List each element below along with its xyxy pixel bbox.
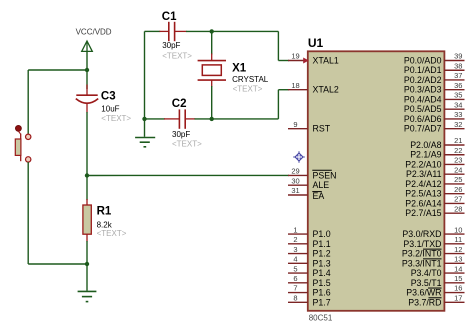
pin 30 ALE [288,176,329,190]
pin 10 P3.0/RXD [402,225,464,239]
pin 17 P3.7/RD [408,293,464,307]
svg-text:30: 30 [291,176,299,185]
wire C3 to RST node [86,112,88,176]
value 30pF C1 [162,41,180,50]
svg-text:24: 24 [454,165,462,174]
svg-text:4: 4 [293,255,297,264]
wire node to C3 [86,70,88,89]
power symbol VCC/VDD [76,28,112,52]
svg-text:P1.4: P1.4 [313,268,331,278]
svg-text:P1.5: P1.5 [313,278,331,288]
svg-text:23: 23 [454,156,462,165]
pin 21 P2.0/A8 [410,136,464,150]
svg-text:<TEXT>: <TEXT> [233,85,263,94]
value CRYSTAL [232,75,269,84]
capacitor C2 [164,109,195,128]
op chip U1 body [308,51,445,311]
pin 11 P3.1/TXD [403,235,464,249]
pin 18 XTAL2 [288,81,339,95]
svg-text:34: 34 [454,100,462,109]
svg-text:39: 39 [454,52,462,61]
svg-text:<TEXT>: <TEXT> [101,114,131,123]
pin 3 P1.2 [288,245,331,259]
svg-text:ALE: ALE [313,180,330,190]
label C1 [162,11,177,23]
svg-text:1: 1 [293,225,297,234]
svg-text:P1.3: P1.3 [313,258,331,268]
junction R1 bottom node [85,262,89,266]
svg-text:CRYSTAL: CRYSTAL [232,75,269,84]
wire C2 to XTAL2 [195,90,290,119]
wire RST node to R1 [86,176,88,201]
svg-text:9: 9 [293,120,297,129]
wire C2 left [145,118,166,120]
wire R1 to ground [86,241,88,291]
svg-text:28: 28 [454,204,462,213]
pin 36 P0.3/AD3 [404,81,465,95]
svg-text:38: 38 [454,61,462,70]
pin 28 P2.7/A15 [405,204,464,218]
pin 31 EA [288,186,324,201]
label U1 [308,36,324,50]
pin 25 P2.4/A12 [405,175,464,189]
svg-text:15: 15 [454,274,462,283]
pin 2 P1.1 [288,235,331,249]
svg-text:P2.7/A15: P2.7/A15 [405,208,441,218]
svg-text:P0.5/AD5: P0.5/AD5 [404,104,442,114]
crystal X1 [198,54,226,87]
svg-text:P2.6/A14: P2.6/A14 [405,198,441,208]
svg-text:P2.3/A11: P2.3/A11 [406,169,442,179]
pin 8 P1.7 [288,293,331,307]
svg-text:P3.3/INT1: P3.3/INT1 [402,258,442,268]
svg-text:P2.1/A9: P2.1/A9 [410,150,441,160]
junction crystal top [210,29,214,33]
wire RST node to PSEN pin [87,174,289,176]
pin 24 P2.3/A11 [406,165,465,179]
svg-text:EA: EA [313,191,325,201]
svg-text:C2: C2 [172,98,187,110]
text placeholder C3 [101,114,131,123]
svg-text:2: 2 [293,235,297,244]
svg-text:8: 8 [293,293,297,302]
svg-text:P1.1: P1.1 [313,239,331,249]
svg-text:29: 29 [291,167,299,176]
svg-text:P0.6/AD6: P0.6/AD6 [404,114,442,124]
svg-text:C1: C1 [162,11,177,23]
svg-text:XTAL2: XTAL2 [313,85,339,95]
svg-text:11: 11 [454,235,462,244]
svg-text:3: 3 [293,245,297,254]
wire crystal bottom to C2 wire [211,86,213,119]
svg-text:18: 18 [291,81,299,90]
svg-text:R1: R1 [97,206,112,218]
pin 29 PSEN [288,167,336,181]
svg-text:P0.2/AD2: P0.2/AD2 [404,75,442,85]
svg-text:X1: X1 [232,63,247,75]
text placeholder C2 [172,140,202,149]
svg-text:P1.0: P1.0 [313,229,331,239]
capacitor C3 [76,85,98,113]
pin 9 RST [288,120,331,134]
wire junction to crystal top [211,31,213,54]
capacitor C1 [160,22,187,41]
svg-text:P0.3/AD3: P0.3/AD3 [404,85,442,95]
text placeholder X1 [233,85,263,94]
svg-text:37: 37 [454,71,462,80]
svg-text:30pF: 30pF [172,130,190,139]
wire button bottom to ground node [28,162,87,264]
svg-text:21: 21 [454,136,462,145]
pin 13 P3.3/INT1 [402,255,465,269]
junction crystal bottom [210,117,214,121]
wire left vertical C1 to C2 to ground [144,31,146,136]
svg-text:P3.2/INT0: P3.2/INT0 [402,249,442,259]
pin 27 P2.6/A14 [405,195,464,209]
svg-text:14: 14 [454,264,462,273]
wire C1 left [145,30,161,32]
svg-text:RST: RST [313,124,331,134]
pin 1 P1.0 [288,225,331,239]
svg-text:6: 6 [293,274,297,283]
svg-text:32: 32 [454,120,462,129]
svg-text:P3.5/T1: P3.5/T1 [411,278,442,288]
push button [15,125,31,162]
wire node to button top [28,70,87,134]
svg-text:22: 22 [454,146,462,155]
svg-text:P3.4/T0: P3.4/T0 [411,268,442,278]
svg-text:P0.4/AD4: P0.4/AD4 [404,94,442,104]
junction VCC node [85,68,89,72]
wire VCC stem to node [86,51,88,70]
junction C2 left node [142,117,146,121]
svg-text:35: 35 [454,91,462,100]
pin 22 P2.1/A9 [410,146,464,160]
pin 35 P0.4/AD4 [404,91,465,105]
svg-text:10: 10 [454,225,462,234]
svg-text:33: 33 [454,110,462,119]
pin 12 P3.2/INT0 [402,245,465,259]
svg-text:P0.1/AD1: P0.1/AD1 [404,65,442,75]
pin 7 P1.6 [288,284,331,298]
svg-text:VCC/VDD: VCC/VDD [76,28,112,37]
svg-text:<TEXT>: <TEXT> [97,229,127,238]
svg-text:P3.6/WR: P3.6/WR [406,288,441,298]
svg-text:27: 27 [454,195,462,204]
svg-text:<TEXT>: <TEXT> [162,51,192,60]
svg-text:P2.2/A10: P2.2/A10 [405,159,441,169]
pin 5 P1.4 [288,264,331,278]
svg-text:5: 5 [293,264,297,273]
svg-text:36: 36 [454,81,462,90]
svg-text:P2.0/A8: P2.0/A8 [410,140,441,150]
pin 23 P2.2/A10 [405,156,464,170]
svg-text:12: 12 [454,245,462,254]
pin 14 P3.4/T0 [411,264,465,278]
svg-text:30pF: 30pF [162,41,180,50]
resistor R1 [83,199,91,242]
value 10uF [101,105,119,114]
text placeholder C1 [162,51,192,60]
pin 33 P0.6/AD6 [404,110,465,124]
svg-text:P2.5/A13: P2.5/A13 [405,189,441,199]
svg-text:80C51: 80C51 [309,314,333,323]
pin 32 P0.7/AD7 [404,120,465,134]
svg-text:<TEXT>: <TEXT> [172,140,202,149]
svg-text:P0.7/AD7: P0.7/AD7 [404,124,442,134]
pin 39 P0.0/AD0 [404,52,465,66]
label C2 [172,98,187,110]
pin 19 XTAL1 [288,52,339,66]
svg-text:P1.7: P1.7 [313,297,331,307]
junction RST node [85,173,89,177]
origin marker [293,151,305,163]
label X1 [232,63,247,75]
label C3 [101,91,116,103]
pin 26 P2.5/A13 [405,185,464,199]
svg-text:P1.2: P1.2 [313,249,331,259]
pin 6 P1.5 [288,274,331,288]
pin 37 P0.2/AD2 [404,71,465,85]
svg-text:P3.0/RXD: P3.0/RXD [402,229,441,239]
pin 16 P3.6/WR [406,284,464,298]
svg-text:31: 31 [291,186,299,195]
svg-text:17: 17 [454,293,462,302]
label R1 [97,206,112,218]
svg-text:13: 13 [454,255,462,264]
ground symbol left [78,291,97,301]
svg-text:10uF: 10uF [101,105,119,114]
svg-text:C3: C3 [101,91,116,103]
pin 38 P0.1/AD1 [404,61,465,75]
svg-text:P0.0/AD0: P0.0/AD0 [404,56,442,66]
pin 15 P3.5/T1 [411,274,465,288]
pin 34 P0.5/AD5 [404,100,465,114]
svg-text:PSEN: PSEN [313,170,337,180]
svg-text:7: 7 [293,284,297,293]
text placeholder R1 [97,229,127,238]
svg-text:26: 26 [454,185,462,194]
svg-text:P1.6: P1.6 [313,288,331,298]
svg-text:P2.4/A12: P2.4/A12 [405,179,441,189]
svg-text:U1: U1 [308,36,324,50]
svg-text:XTAL1: XTAL1 [313,56,339,66]
svg-text:P3.1/TXD: P3.1/TXD [403,239,441,249]
label 80C51 [309,314,333,323]
wire C1 to XTAL1 [186,31,289,60]
svg-text:25: 25 [454,175,462,184]
ground symbol crystal [135,138,155,147]
value 8.2k [97,220,113,229]
svg-text:P3.7/RD: P3.7/RD [408,297,441,307]
pin 4 P1.3 [288,255,331,269]
value 30pF C2 [172,130,190,139]
svg-text:16: 16 [454,284,462,293]
svg-text:19: 19 [291,52,299,61]
